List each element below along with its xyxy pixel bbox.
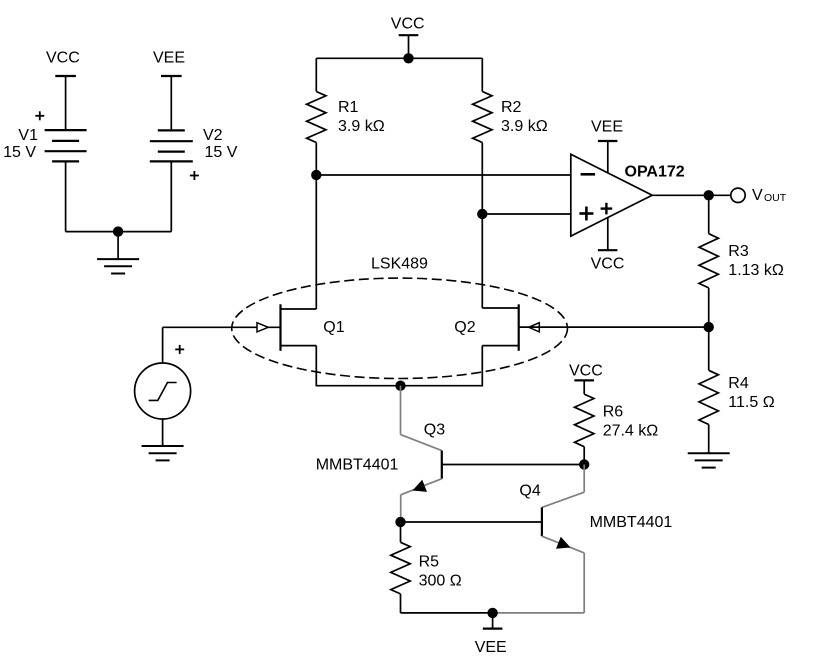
wire Q1 gate (163, 326, 281, 328)
wire V1 bottom (65, 161, 67, 231)
wire to ground (117, 232, 119, 260)
svg-text:MMBT4401: MMBT4401 (316, 457, 399, 474)
ground batteries (97, 259, 139, 273)
wire source to gate (162, 327, 164, 363)
wire op-amp output (652, 194, 732, 196)
svg-text:R3: R3 (728, 243, 749, 260)
junction mirror node (579, 459, 589, 469)
svg-text:300 Ω: 300 Ω (419, 573, 462, 590)
wire R4 bottom lead (708, 425, 710, 454)
junction R2 / op-amp non-inverting (477, 209, 487, 219)
wire bottom rail black (401, 612, 493, 614)
junction common source (395, 381, 405, 391)
transistor Q4 (519, 465, 672, 613)
svg-text:VEE: VEE (475, 639, 507, 656)
power VCC top (391, 16, 425, 59)
ground source (142, 446, 184, 460)
resistor R4 (699, 370, 775, 424)
svg-text:3.9 kΩ: 3.9 kΩ (338, 118, 385, 135)
wire R3 top lead (708, 195, 710, 233)
junction R1 / op-amp inverting (311, 170, 321, 180)
svg-text:MMBT4401: MMBT4401 (590, 514, 673, 531)
svg-text:VCC: VCC (591, 255, 625, 272)
power VCC R6 (569, 363, 603, 395)
junction VCC rail (403, 53, 413, 63)
svg-text:V1: V1 (18, 127, 38, 144)
junction Q3 emitter node (395, 517, 405, 527)
wire battery common (66, 231, 172, 233)
transistor Q1 (257, 304, 345, 351)
wire R1 top lead (315, 58, 317, 91)
svg-text:11.5 Ω: 11.5 Ω (728, 394, 774, 411)
wire bottom rail gray (493, 612, 585, 614)
resistor R1 (307, 92, 385, 143)
junction battery common (113, 226, 123, 236)
svg-text:VEE: VEE (591, 119, 623, 136)
transistor Q3 (316, 386, 446, 522)
terminal VOUT (731, 187, 787, 204)
battery V2 (150, 50, 238, 180)
svg-text:R5: R5 (419, 554, 440, 571)
wire non-inverting input (482, 213, 571, 215)
wire source bottom (162, 419, 164, 446)
junction VEE node (487, 608, 497, 618)
svg-text:OUT: OUT (764, 192, 787, 204)
svg-text:R1: R1 (338, 99, 359, 116)
svg-text:R4: R4 (728, 375, 749, 392)
wire Q2 source (401, 346, 483, 386)
junction output node (704, 190, 714, 200)
wire R1 bottom to Q1 drain (315, 143, 317, 310)
wire R2 top lead (481, 58, 483, 91)
transistor Q2 (454, 304, 539, 351)
svg-text:VEE: VEE (153, 50, 185, 67)
svg-text:15 V: 15 V (205, 144, 238, 161)
svg-text:VCC: VCC (46, 50, 80, 67)
resistor R2 (473, 92, 548, 143)
svg-text:Q4: Q4 (519, 483, 540, 500)
wire R3 bottom lead (708, 288, 710, 327)
resistor R3 (699, 234, 784, 288)
power VCC op-amp pin (591, 218, 625, 272)
svg-text:V: V (752, 187, 763, 204)
wire Q4 base (401, 521, 542, 523)
svg-text:R2: R2 (501, 99, 522, 116)
svg-text:15 V: 15 V (3, 144, 36, 161)
junction feedback node (704, 322, 714, 332)
svg-text:OPA172: OPA172 (625, 163, 685, 180)
wire R2 bottom to Q2 drain (481, 143, 483, 309)
svg-text:Q2: Q2 (454, 319, 475, 336)
svg-text:Q3: Q3 (424, 422, 445, 439)
svg-text:V2: V2 (203, 127, 223, 144)
svg-text:R6: R6 (603, 404, 624, 421)
ground R4 (688, 453, 730, 467)
svg-text:Q1: Q1 (323, 319, 344, 336)
resistor R5 (391, 522, 462, 594)
op-amp U1 OPA172 (571, 154, 685, 236)
svg-text:LSK489: LSK489 (371, 256, 428, 273)
wire Q2 gate feedback (519, 326, 709, 328)
wire VCC rail (316, 57, 482, 59)
svg-text:VCC: VCC (569, 363, 603, 380)
battery V1 (3, 50, 87, 162)
svg-text:3.9 kΩ: 3.9 kΩ (501, 118, 548, 135)
power VEE op-amp pin (591, 119, 623, 174)
wire R6 bottom lead (583, 447, 585, 465)
wire R4 top lead (708, 327, 710, 370)
svg-text:27.4 kΩ: 27.4 kΩ (603, 423, 659, 440)
LSK489 package ellipse (232, 256, 568, 379)
power VEE bottom (475, 613, 507, 656)
wire inverting input (316, 174, 571, 176)
wire Q3 base (442, 464, 584, 466)
svg-text:VCC: VCC (391, 16, 425, 33)
resistor R6 (575, 394, 659, 447)
wire V2 bottom (170, 161, 172, 231)
wire R5 bottom lead (400, 594, 402, 613)
source VG1 (135, 345, 191, 419)
svg-text:1.13 kΩ: 1.13 kΩ (728, 262, 784, 279)
wire Q1 source (316, 346, 400, 386)
